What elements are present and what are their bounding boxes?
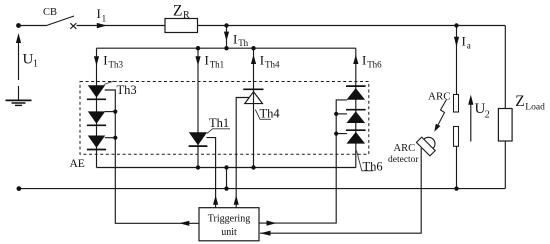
svg-text:Th3: Th3 [117, 83, 137, 97]
svg-text:I: I [205, 53, 209, 68]
svg-text:I: I [362, 53, 366, 68]
svg-text:Z: Z [515, 93, 524, 110]
svg-text:ARC: ARC [428, 91, 451, 103]
svg-text:unit: unit [221, 227, 237, 238]
svg-text:U: U [23, 52, 34, 68]
svg-text:1: 1 [33, 59, 38, 70]
svg-text:Th1: Th1 [210, 60, 225, 70]
svg-text:Th4: Th4 [260, 107, 281, 121]
svg-text:Th6: Th6 [367, 60, 382, 70]
svg-text:I: I [97, 6, 101, 21]
svg-text:I: I [462, 34, 466, 49]
svg-text:detector: detector [388, 155, 419, 165]
svg-text:a: a [467, 41, 471, 51]
svg-text:Th6: Th6 [363, 160, 383, 174]
svg-text:I: I [103, 53, 107, 68]
svg-text:Th: Th [238, 38, 248, 48]
svg-text:CB: CB [43, 7, 57, 18]
svg-text:AE: AE [70, 158, 85, 170]
svg-text:Triggering: Triggering [208, 214, 250, 225]
svg-text:ARC: ARC [394, 143, 416, 154]
svg-text:R: R [183, 10, 190, 21]
svg-text:Th1: Th1 [209, 116, 229, 130]
svg-text:I: I [233, 31, 237, 46]
svg-text:Load: Load [525, 103, 545, 113]
svg-text:1: 1 [102, 13, 107, 23]
svg-text:Th3: Th3 [109, 60, 124, 70]
svg-text:Z: Z [173, 2, 182, 19]
svg-text:Th4: Th4 [265, 60, 280, 70]
svg-text:I: I [260, 53, 264, 68]
svg-text:2: 2 [485, 110, 490, 121]
